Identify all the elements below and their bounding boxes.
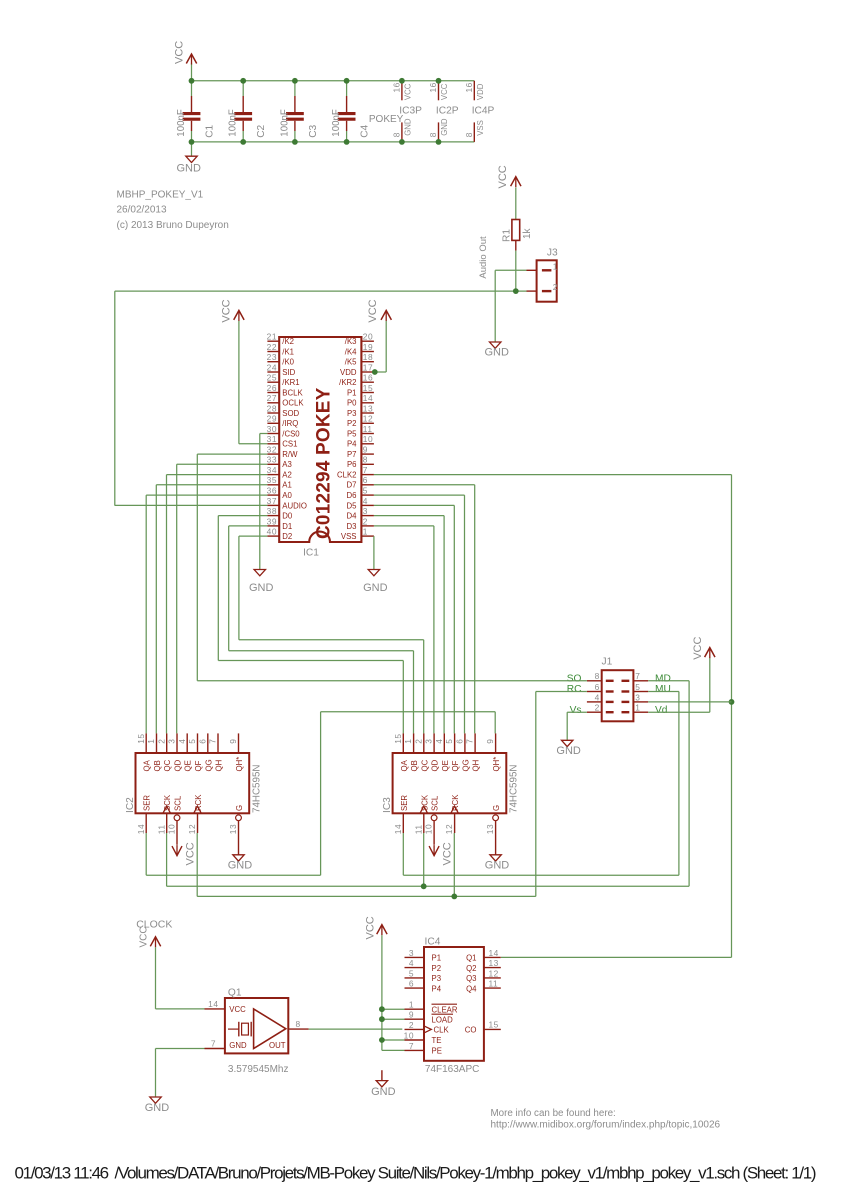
svg-text:VSS: VSS	[341, 532, 357, 541]
svg-text:100nF: 100nF	[228, 109, 239, 137]
svg-text:16: 16	[464, 82, 474, 92]
svg-text:BCLK: BCLK	[282, 388, 303, 397]
svg-text:C3: C3	[308, 124, 319, 137]
svg-text:CS1: CS1	[282, 440, 297, 449]
svg-text:OUT: OUT	[269, 1041, 286, 1050]
svg-text:SCL: SCL	[431, 795, 440, 811]
svg-text:74HC595N: 74HC595N	[509, 765, 520, 813]
svg-text:8: 8	[428, 132, 438, 137]
svg-text:36: 36	[267, 486, 277, 496]
svg-text:CLK2: CLK2	[337, 471, 357, 480]
svg-text:Q2: Q2	[466, 964, 476, 973]
svg-text:24: 24	[267, 362, 277, 372]
svg-text:8: 8	[464, 132, 474, 137]
svg-text:3: 3	[363, 506, 368, 516]
svg-text:15: 15	[136, 733, 146, 743]
svg-text:P5: P5	[347, 429, 357, 438]
svg-text:1: 1	[553, 261, 558, 271]
svg-text:(c) 2013 Bruno Dupeyron: (c) 2013 Bruno Dupeyron	[117, 220, 229, 231]
svg-text:16: 16	[392, 82, 402, 92]
svg-text:C4: C4	[360, 124, 371, 137]
svg-text:QA: QA	[400, 759, 409, 771]
svg-text:C1: C1	[205, 124, 216, 137]
svg-text:10: 10	[363, 434, 373, 444]
svg-text:C012294 POKEY: C012294 POKEY	[314, 387, 335, 539]
svg-text:Audio Out: Audio Out	[478, 236, 489, 279]
svg-text:2: 2	[156, 739, 166, 744]
svg-text:IC4P: IC4P	[472, 106, 495, 117]
svg-text:GND: GND	[556, 745, 581, 757]
svg-text:16: 16	[363, 373, 373, 383]
svg-text:Q4: Q4	[466, 984, 477, 993]
svg-text:GND: GND	[440, 118, 449, 136]
svg-text:PE: PE	[432, 1047, 442, 1056]
svg-text:D7: D7	[347, 481, 357, 490]
svg-text:7: 7	[208, 739, 218, 744]
svg-text:SOD: SOD	[282, 409, 299, 418]
svg-text:/K0: /K0	[282, 358, 294, 367]
svg-text:IC1: IC1	[303, 548, 319, 559]
svg-text:D5: D5	[347, 501, 358, 510]
svg-text:VCC: VCC	[185, 842, 197, 865]
svg-text:QB: QB	[410, 760, 419, 771]
svg-text:GND: GND	[177, 163, 202, 175]
svg-text:VDD: VDD	[476, 83, 485, 100]
svg-text:VCC: VCC	[138, 926, 149, 947]
svg-text:2: 2	[363, 516, 368, 526]
svg-text:5: 5	[444, 739, 454, 744]
svg-text:GND: GND	[404, 118, 413, 136]
svg-text:16: 16	[428, 82, 438, 92]
svg-text:9: 9	[228, 739, 238, 744]
svg-text:8: 8	[392, 132, 402, 137]
svg-text:1k: 1k	[522, 227, 533, 239]
svg-text:5: 5	[363, 486, 368, 496]
svg-text:Vd: Vd	[655, 705, 668, 716]
svg-text:32: 32	[267, 445, 277, 455]
svg-text:6: 6	[409, 979, 414, 989]
svg-text:VCC: VCC	[367, 299, 379, 322]
svg-text:8: 8	[363, 455, 368, 465]
svg-text:7: 7	[211, 1039, 216, 1049]
svg-text:VCC: VCC	[442, 842, 454, 865]
svg-text:14: 14	[136, 824, 146, 834]
svg-text:1: 1	[635, 703, 640, 713]
svg-text:30: 30	[267, 424, 277, 434]
svg-text:P0: P0	[347, 399, 357, 408]
svg-text:QC: QC	[420, 759, 429, 771]
svg-text:QH*: QH*	[492, 757, 501, 772]
svg-text:7: 7	[363, 465, 368, 475]
svg-text:20: 20	[363, 332, 373, 342]
svg-text:VCC: VCC	[692, 637, 704, 660]
svg-text:QD: QD	[174, 759, 183, 771]
svg-text:14: 14	[489, 948, 499, 958]
svg-text:/KR2: /KR2	[339, 378, 356, 387]
svg-text:29: 29	[267, 414, 277, 424]
svg-text:POKEY: POKEY	[369, 114, 404, 125]
svg-text:15: 15	[363, 383, 373, 393]
svg-text:11: 11	[489, 979, 499, 989]
svg-text:P3: P3	[432, 974, 442, 983]
svg-text:QA: QA	[143, 759, 152, 771]
svg-text:VCC: VCC	[173, 41, 185, 64]
svg-text:28: 28	[267, 403, 277, 413]
svg-text:5: 5	[409, 968, 414, 978]
svg-text:QB: QB	[153, 760, 162, 771]
svg-text:3: 3	[635, 692, 640, 702]
svg-text:GND: GND	[363, 582, 388, 594]
svg-text:/K4: /K4	[345, 347, 357, 356]
svg-text:SER: SER	[400, 795, 409, 811]
svg-text:2: 2	[595, 703, 600, 713]
svg-text:1: 1	[403, 739, 413, 744]
svg-text:MBHP_POKEY_V1: MBHP_POKEY_V1	[117, 189, 204, 200]
svg-text:AUDIO: AUDIO	[282, 501, 307, 510]
svg-text:100nF: 100nF	[331, 109, 342, 137]
svg-text:8: 8	[296, 1019, 301, 1029]
svg-text:/CS0: /CS0	[282, 429, 300, 438]
svg-text:GND: GND	[485, 860, 510, 872]
svg-text:QH*: QH*	[235, 757, 244, 772]
svg-text:P3: P3	[347, 409, 357, 418]
svg-text:VCC: VCC	[229, 1005, 246, 1014]
svg-text:25: 25	[267, 373, 277, 383]
svg-text:12: 12	[489, 968, 499, 978]
svg-text:11: 11	[156, 824, 166, 834]
svg-text:01/03/13 11:46 /Volumes/DATA/: 01/03/13 11:46 /Volumes/DATA/Bruno/Proje…	[15, 1164, 816, 1183]
svg-text:D2: D2	[282, 532, 292, 541]
svg-text:P1: P1	[347, 388, 357, 397]
svg-text:/IRQ: /IRQ	[282, 419, 298, 428]
svg-text:22: 22	[267, 342, 277, 352]
svg-text:4: 4	[409, 958, 414, 968]
svg-text:3: 3	[167, 739, 177, 744]
svg-text:SO: SO	[567, 674, 582, 685]
svg-text:4: 4	[363, 496, 368, 506]
svg-text:RC: RC	[567, 684, 582, 695]
svg-text:D6: D6	[347, 491, 357, 500]
svg-text:13: 13	[363, 403, 373, 413]
svg-text:7: 7	[465, 739, 475, 744]
svg-text:A0: A0	[282, 491, 292, 500]
svg-text:CLK: CLK	[434, 1026, 450, 1035]
svg-text:LOAD: LOAD	[432, 1015, 454, 1024]
svg-text:13: 13	[489, 958, 499, 968]
svg-text:23: 23	[267, 352, 277, 362]
svg-text:2: 2	[553, 282, 558, 292]
svg-text:Q1: Q1	[466, 954, 476, 963]
svg-text:6: 6	[363, 475, 368, 485]
svg-text:GND: GND	[228, 860, 253, 872]
svg-text:21: 21	[267, 332, 277, 342]
svg-text:/K3: /K3	[345, 337, 357, 346]
svg-text:19: 19	[363, 342, 373, 352]
svg-text:14: 14	[208, 999, 218, 1009]
svg-text:TE: TE	[432, 1036, 442, 1045]
svg-text:GND: GND	[229, 1041, 247, 1050]
svg-text:P6: P6	[347, 460, 357, 469]
svg-text:39: 39	[267, 516, 277, 526]
svg-text:3: 3	[409, 948, 414, 958]
svg-text:14: 14	[363, 393, 373, 403]
svg-text:SCL: SCL	[174, 795, 183, 811]
svg-text:26/02/2013: 26/02/2013	[117, 204, 167, 215]
svg-text:/K1: /K1	[282, 347, 294, 356]
svg-text:/K2: /K2	[282, 337, 294, 346]
svg-text:4: 4	[595, 692, 600, 702]
svg-text:QH: QH	[215, 760, 224, 772]
svg-text:P2: P2	[432, 964, 442, 973]
svg-text:VCC: VCC	[404, 83, 413, 100]
svg-text:35: 35	[267, 475, 277, 485]
svg-text:2: 2	[413, 739, 423, 744]
svg-text:QE: QE	[441, 760, 450, 771]
svg-text:QC: QC	[163, 759, 172, 771]
svg-text:OCLK: OCLK	[282, 399, 304, 408]
svg-text:100nF: 100nF	[176, 109, 187, 137]
svg-text:SID: SID	[282, 368, 295, 377]
svg-text:QG: QG	[204, 759, 213, 771]
svg-text:4: 4	[434, 739, 444, 744]
svg-text:14: 14	[393, 824, 403, 834]
svg-text:GND: GND	[249, 582, 274, 594]
svg-text:Q3: Q3	[466, 974, 476, 983]
svg-text:QD: QD	[431, 759, 440, 771]
svg-text:10: 10	[404, 1030, 414, 1040]
svg-text:33: 33	[267, 455, 277, 465]
svg-text:IC4: IC4	[425, 936, 441, 947]
svg-text:9: 9	[363, 445, 368, 455]
svg-text:GND: GND	[145, 1102, 170, 1114]
svg-text:VCC: VCC	[365, 916, 377, 939]
svg-text:G: G	[235, 805, 244, 811]
svg-text:6: 6	[595, 682, 600, 692]
svg-text:IC2P: IC2P	[436, 106, 459, 117]
svg-text:QE: QE	[184, 760, 193, 771]
svg-text:4: 4	[177, 739, 187, 744]
svg-text:1: 1	[146, 739, 156, 744]
svg-text:GND: GND	[485, 347, 510, 359]
svg-text:18: 18	[363, 352, 373, 362]
svg-text:12: 12	[187, 824, 197, 834]
svg-text:1: 1	[363, 527, 368, 537]
svg-text:37: 37	[267, 496, 277, 506]
svg-text:A1: A1	[282, 481, 292, 490]
svg-text:D4: D4	[347, 512, 358, 521]
svg-text:34: 34	[267, 465, 277, 475]
svg-text:VSS: VSS	[476, 120, 485, 136]
svg-text:17: 17	[363, 362, 373, 372]
svg-text:15: 15	[393, 733, 403, 743]
svg-text:11: 11	[413, 824, 423, 834]
svg-text:C2: C2	[256, 124, 267, 137]
svg-text:IC3: IC3	[382, 797, 393, 813]
svg-text:6: 6	[197, 739, 207, 744]
svg-text:1: 1	[409, 1000, 414, 1010]
svg-text:15: 15	[489, 1020, 499, 1030]
svg-text:CLEAR: CLEAR	[432, 1005, 458, 1014]
svg-text:9: 9	[485, 739, 495, 744]
svg-text:A2: A2	[282, 471, 292, 480]
svg-text:More info can be found here:: More info can be found here:	[491, 1108, 616, 1119]
svg-text:3: 3	[424, 739, 434, 744]
svg-text:27: 27	[267, 393, 277, 403]
svg-text:G: G	[492, 805, 501, 811]
svg-text:P2: P2	[347, 419, 357, 428]
svg-text:D0: D0	[282, 512, 293, 521]
svg-text:9: 9	[409, 1010, 414, 1020]
svg-text:5: 5	[635, 682, 640, 692]
svg-text:J1: J1	[602, 657, 613, 668]
svg-text:31: 31	[267, 434, 277, 444]
svg-text:QF: QF	[194, 760, 203, 771]
svg-text:11: 11	[363, 424, 373, 434]
svg-text:P7: P7	[347, 450, 357, 459]
svg-text:13: 13	[485, 824, 495, 834]
svg-text:12: 12	[444, 824, 454, 834]
svg-text:QH: QH	[472, 760, 481, 772]
svg-text:7: 7	[409, 1041, 414, 1051]
svg-text:/KR1: /KR1	[282, 378, 299, 387]
svg-text:D3: D3	[347, 522, 357, 531]
svg-text:Vs: Vs	[570, 705, 582, 716]
svg-text:IC2: IC2	[125, 797, 136, 813]
svg-text:CO: CO	[465, 1026, 477, 1035]
svg-text:http://www.midibox.org/forum/i: http://www.midibox.org/forum/index.php/t…	[491, 1119, 721, 1130]
svg-text:13: 13	[228, 824, 238, 834]
svg-text:SER: SER	[143, 795, 152, 811]
svg-text:/K5: /K5	[345, 358, 357, 367]
svg-text:2: 2	[409, 1020, 414, 1030]
svg-text:MD: MD	[655, 674, 671, 685]
svg-text:P4: P4	[347, 440, 357, 449]
svg-text:VCC: VCC	[440, 83, 449, 100]
svg-text:QF: QF	[451, 760, 460, 771]
svg-text:12: 12	[363, 414, 373, 424]
svg-text:QG: QG	[461, 759, 470, 771]
svg-text:10: 10	[167, 824, 177, 834]
svg-text:100nF: 100nF	[279, 109, 290, 137]
svg-text:P1: P1	[432, 954, 442, 963]
svg-text:R1: R1	[501, 229, 512, 242]
svg-text:7: 7	[635, 671, 640, 681]
svg-text:VCC: VCC	[497, 165, 509, 188]
svg-text:A3: A3	[282, 460, 292, 469]
svg-text:Q1: Q1	[228, 988, 242, 999]
svg-text:VDD: VDD	[340, 368, 357, 377]
svg-text:VCC: VCC	[221, 299, 233, 322]
svg-text:38: 38	[267, 506, 277, 516]
svg-text:3.579545Mhz: 3.579545Mhz	[228, 1064, 289, 1075]
svg-text:J3: J3	[547, 247, 558, 258]
svg-text:R/W: R/W	[282, 450, 298, 459]
svg-text:74HC595N: 74HC595N	[252, 765, 263, 813]
svg-text:6: 6	[455, 739, 465, 744]
svg-text:GND: GND	[371, 1086, 396, 1098]
svg-text:74F163APC: 74F163APC	[425, 1064, 479, 1075]
svg-text:P4: P4	[432, 984, 442, 993]
svg-text:26: 26	[267, 383, 277, 393]
svg-text:D1: D1	[282, 522, 292, 531]
svg-text:5: 5	[187, 739, 197, 744]
svg-text:MU: MU	[655, 684, 671, 695]
svg-text:40: 40	[267, 527, 277, 537]
svg-text:10: 10	[424, 824, 434, 834]
svg-text:8: 8	[595, 671, 600, 681]
